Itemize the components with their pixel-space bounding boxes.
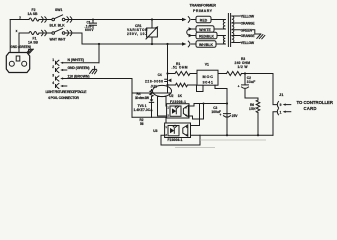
switch SW1 pole A <box>52 15 65 21</box>
svg-text:U3: U3 <box>153 129 157 133</box>
svg-text:TO CONTROLLER: TO CONTROLLER <box>297 100 334 105</box>
label C1 .1uF 600V <box>85 21 95 32</box>
svg-text:3041: 3041 <box>203 80 214 84</box>
label R3 240 OHM 1/2 W <box>235 57 251 69</box>
svg-text:U2: U2 <box>169 94 173 98</box>
wire AC top line <box>10 19 182 21</box>
label R4 10 ohm 2W <box>135 92 149 100</box>
svg-text:25V: 25V <box>232 114 239 118</box>
svg-text:LIGHT FIXTURE RECEPTACLE: LIGHT FIXTURE RECEPTACLE <box>46 90 88 94</box>
receptacle pin 3 <box>52 74 132 81</box>
wire-color box RED <box>196 16 211 22</box>
svg-text:100uF: 100uF <box>211 110 221 114</box>
svg-text:GND (GREEN): GND (GREEN) <box>68 66 90 70</box>
receptacle pin 4 <box>52 81 67 88</box>
wire U2 pin4 up to node rail <box>189 103 205 120</box>
node junction (MOC out / C3 / opto U2) <box>226 102 228 104</box>
svg-text:BLK: BLK <box>58 24 65 28</box>
svg-text:33uF: 33uF <box>247 80 256 84</box>
wire live feed down from lower AC line <box>166 43 168 93</box>
wire U3 pin2 loop <box>161 135 200 145</box>
resistor R1 .51 OHM <box>166 72 197 76</box>
connector arrow (primary WH/BLK row) <box>182 41 196 47</box>
wire plug lead N <box>18 33 20 53</box>
resistor R4 10 ohm 2W <box>150 90 153 100</box>
svg-text:56: 56 <box>140 122 144 126</box>
svg-text:WHT: WHT <box>50 37 58 41</box>
wire AC lower line <box>19 33 182 44</box>
switch SW1 pole B <box>52 28 65 34</box>
wire bottom rail <box>191 134 274 136</box>
faint scan line bottom <box>175 147 215 149</box>
label TVS 1 1.4KE7.3CA <box>134 104 154 112</box>
resistor R3 240 OHM <box>218 72 273 76</box>
wire-color box WHITE <box>196 26 214 32</box>
svg-text:x: x <box>16 29 18 33</box>
wire-color box RED/BLK <box>196 32 217 38</box>
AC plug P1 (IEC line cord plug) <box>6 53 29 73</box>
svg-text:BLK: BLK <box>50 24 57 28</box>
svg-text:F23008-1: F23008-1 <box>170 100 186 104</box>
svg-text:YELLOW: YELLOW <box>241 15 255 19</box>
transformer T1 secondary winding <box>232 16 240 43</box>
wire plug lead L <box>9 20 11 53</box>
capacitor C4 <box>165 79 172 83</box>
svg-text:15K: 15K <box>249 107 256 111</box>
TVS diode TVS1 <box>149 99 153 117</box>
optotriac driver V1 MOC 3041 <box>197 70 218 85</box>
svg-text:MOC: MOC <box>203 75 214 79</box>
svg-text:ORANGE: ORANGE <box>241 22 256 26</box>
wire node to opto U2 pin 6 <box>189 104 227 107</box>
chassis ground (receptacle pin 2) <box>90 66 97 73</box>
svg-text:4 POS. CONNECTOR: 4 POS. CONNECTOR <box>48 96 80 100</box>
chassis ground (secondary center tap) <box>257 34 265 39</box>
svg-text:1: 1 <box>280 110 282 114</box>
chassis ground at plug <box>27 49 33 53</box>
svg-text:J1: J1 <box>279 92 284 97</box>
fuse F2 <box>29 18 39 21</box>
fuse F1 <box>29 32 39 35</box>
J1 pin 1 <box>277 102 291 108</box>
faint scan line lower <box>200 139 266 141</box>
svg-text:+: + <box>238 84 240 88</box>
svg-text:1K: 1K <box>178 94 183 98</box>
connector pair (lower line, right) <box>67 30 72 35</box>
wire-color box WH/BLK <box>196 41 216 47</box>
svg-text:600V: 600V <box>85 28 94 32</box>
svg-text:C4: C4 <box>158 73 162 77</box>
transformer T1 primary winding 2 <box>216 36 225 45</box>
primary jumper bracket rows 2-3 <box>187 27 196 37</box>
wire green center tap to chassis <box>252 30 260 34</box>
svg-text:250V, 10J: 250V, 10J <box>127 32 147 36</box>
label C3 100uF 25V <box>211 106 238 118</box>
optocoupler U3 F23008-1 <box>165 123 191 138</box>
svg-text:1A SB: 1A SB <box>28 12 39 16</box>
svg-text:YELLOW: YELLOW <box>241 41 255 45</box>
svg-text:PRIMARY: PRIMARY <box>193 9 213 13</box>
svg-text:10 ohm 2W: 10 ohm 2W <box>135 96 149 100</box>
wire N branch up to lower AC line <box>98 44 100 63</box>
wire left rail to opto U2 inputs <box>158 97 167 117</box>
svg-text:JU1: JU1 <box>151 85 158 89</box>
capacitor C1 <box>90 19 97 29</box>
transformer T1 core <box>228 14 230 47</box>
svg-text:1: 1 <box>52 58 54 62</box>
label CR1 VARISTOR 250V, 10J <box>127 24 148 36</box>
svg-text:WH/BLK: WH/BLK <box>199 43 214 47</box>
svg-text:GREEN: GREEN <box>241 28 253 32</box>
label U2 1K <box>169 94 182 98</box>
label C2 33uF <box>247 76 256 84</box>
svg-text:TRANSFORMER: TRANSFORMER <box>190 3 217 7</box>
svg-text:ORANGE: ORANGE <box>241 34 256 38</box>
connector pair (lower line, left) <box>42 30 47 35</box>
svg-text:WHT: WHT <box>58 37 66 41</box>
wire MOC output to node <box>215 85 227 135</box>
wire brown branch into jumper <box>132 92 171 94</box>
connector J1 bracket top <box>273 74 277 105</box>
svg-text:F23008-1: F23008-1 <box>168 138 183 142</box>
junction dot N branch <box>98 43 100 45</box>
label TRANSFORMER PRIMARY <box>190 3 217 12</box>
wire brown rail to opto U3 pin1 <box>132 117 166 126</box>
receptacle pin 2 <box>52 65 67 72</box>
transformer T1 primary winding 1 <box>211 20 225 30</box>
svg-text:N (WHITE): N (WHITE) <box>68 58 85 62</box>
svg-text:228-0060: 228-0060 <box>145 80 163 84</box>
label R6 15K <box>249 103 256 111</box>
label TO CONTROLLER CARD <box>297 100 334 111</box>
J1 pin 2 <box>277 109 291 115</box>
svg-text:SW1: SW1 <box>55 8 62 12</box>
svg-text:.51 OHM: .51 OHM <box>172 66 188 70</box>
connector J1 bracket bottom <box>273 112 277 136</box>
wire node rail down to U3 pin6 <box>191 104 200 126</box>
resistor 1K (MOC input) <box>166 83 203 91</box>
resistor R6 15K <box>256 98 260 135</box>
connector arrow (primary RED row) <box>182 17 196 23</box>
svg-text:4: 4 <box>52 81 54 85</box>
jumper JU1 oval <box>153 85 172 96</box>
capacitor C2 33uF <box>238 72 258 98</box>
connector pair (top line, right) <box>67 17 72 22</box>
receptacle pin 1 <box>52 58 99 65</box>
capacitor C3 100uF 25V <box>219 113 230 135</box>
svg-text:1.4KE7.3CA: 1.4KE7.3CA <box>134 108 154 112</box>
wire brown line down <box>131 79 133 118</box>
varistor CR1 <box>146 18 158 45</box>
svg-text:1/2 W: 1/2 W <box>238 65 249 69</box>
svg-text:CARD: CARD <box>304 106 317 111</box>
svg-text:1A SB: 1A SB <box>28 41 39 45</box>
svg-text:GND (GREEN): GND (GREEN) <box>11 45 32 49</box>
connector pair (top line, left) <box>42 17 47 22</box>
svg-text:RED: RED <box>200 19 208 23</box>
optocoupler U2 F23008-1 <box>167 104 189 118</box>
svg-text:2: 2 <box>52 65 54 69</box>
label R1 .51 OHM <box>172 62 188 70</box>
svg-text:9: 9 <box>280 103 282 107</box>
svg-text:V1: V1 <box>205 63 209 67</box>
label R2 56 <box>140 118 144 126</box>
svg-text:WHITE: WHITE <box>199 28 211 32</box>
svg-text:RED/BLK: RED/BLK <box>199 35 215 39</box>
svg-text:110 (BROWN): 110 (BROWN) <box>68 74 90 78</box>
svg-text:3: 3 <box>52 74 54 78</box>
